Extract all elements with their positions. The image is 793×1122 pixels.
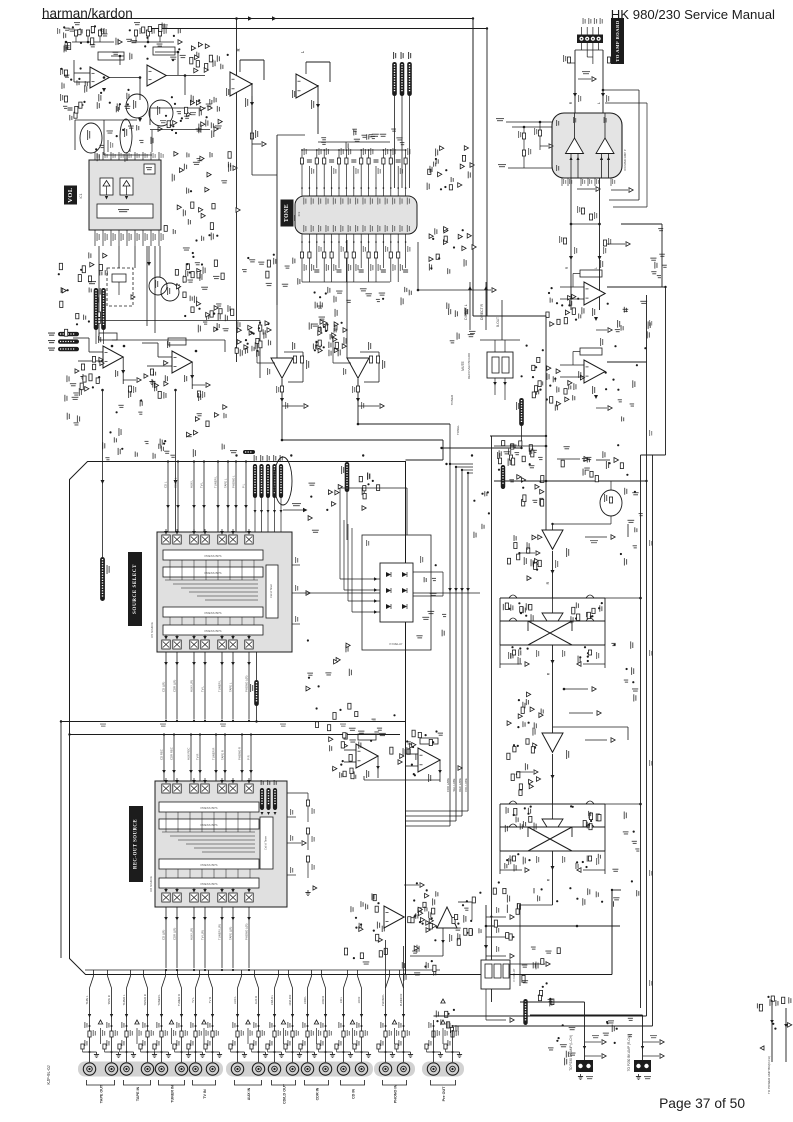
svg-text:PHONO L: PHONO L <box>232 475 236 488</box>
svg-text:TV R: TV R <box>196 754 200 760</box>
svg-text:MUTE: MUTE <box>461 360 465 370</box>
svg-text:PHONO L(R): PHONO L(R) <box>245 675 249 692</box>
svg-text:Cal Id Timer: Cal Id Timer <box>264 836 268 850</box>
svg-text:CD REC: CD REC <box>160 749 164 760</box>
svg-text:REC LABE: REC LABE <box>458 778 462 792</box>
svg-text:CD(R) L: CD(R) L <box>174 477 178 488</box>
svg-text:TV IN: TV IN <box>203 1089 207 1099</box>
svg-text:TAPE L: TAPE L <box>224 478 228 488</box>
svg-text:L: L <box>594 267 598 269</box>
svg-text:CDR R: CDR R <box>321 996 325 1005</box>
svg-text:TONER: TONER <box>450 394 454 405</box>
svg-text:TO POWER AMP BD(R-CH): TO POWER AMP BD(R-CH) <box>767 1056 771 1094</box>
svg-text:TUNER R: TUNER R <box>212 748 216 760</box>
svg-text:CDR IN: CDR IN <box>316 1087 320 1100</box>
svg-text:TUNER R: TUNER R <box>177 994 181 1006</box>
svg-text:TAPE L: TAPE L <box>229 682 233 692</box>
svg-text:CDR L(R): CDR L(R) <box>173 928 177 940</box>
svg-text:PHONO IN: PHONO IN <box>394 1085 398 1104</box>
svg-text:CDR L: CDR L <box>303 995 307 1004</box>
svg-text:TONEL: TONEL <box>456 425 460 435</box>
svg-text:CD L: CD L <box>164 481 168 488</box>
svg-text:Pre OUT: Pre OUT <box>442 1086 446 1102</box>
svg-text:TAPER R: TAPER R <box>143 994 147 1006</box>
svg-text:PRESS BPS: PRESS BPS <box>200 806 217 810</box>
svg-text:B-OUT: B-OUT <box>496 317 500 327</box>
svg-text:PHONO R: PHONO R <box>238 747 242 760</box>
svg-text:TAPE L: TAPE L <box>85 995 89 1005</box>
svg-text:RECOVER BOARD: RECOVER BOARD <box>467 352 471 379</box>
svg-text:KJF-9L-0J: KJF-9L-0J <box>46 1065 51 1084</box>
svg-text:AUX L(R): AUX L(R) <box>190 680 194 692</box>
svg-text:IC1: IC1 <box>79 193 83 198</box>
svg-text:CD L(R): CD L(R) <box>162 930 166 940</box>
svg-text:IC2: IC2 <box>297 211 301 216</box>
svg-text:AUX IN: AUX IN <box>247 1087 251 1100</box>
svg-text:P L: P L <box>242 483 246 488</box>
svg-text:PJ RELAY: PJ RELAY <box>512 968 516 981</box>
svg-text:TV L: TV L <box>191 997 195 1003</box>
svg-text:PHONO L: PHONO L <box>381 993 385 1006</box>
svg-text:SEL LABE: SEL LABE <box>452 778 456 791</box>
svg-text:TUNER L: TUNER L <box>218 680 222 692</box>
svg-text:IC9 MAIN AMP P: IC9 MAIN AMP P <box>623 149 627 171</box>
svg-text:R: R <box>236 48 241 51</box>
svg-text:TAPE R: TAPE R <box>221 750 225 760</box>
svg-text:TV R: TV R <box>208 997 212 1003</box>
svg-text:PHONO R: PHONO R <box>399 994 403 1007</box>
svg-text:TV L: TV L <box>201 686 205 692</box>
svg-text:CD/LD OUT: CD/LD OUT <box>283 1083 287 1104</box>
svg-text:TAPE IN: TAPE IN <box>136 1087 140 1102</box>
svg-text:AUX L(R): AUX L(R) <box>190 928 194 940</box>
svg-text:CD R: CD R <box>357 997 361 1004</box>
svg-text:PRESS BPS: PRESS BPS <box>204 571 221 575</box>
svg-text:TO P230 BK AMP (R-CH): TO P230 BK AMP (R-CH) <box>627 1035 631 1071</box>
svg-text:PRESS BPS: PRESS BPS <box>200 882 217 886</box>
svg-text:CDL LABE: CDL LABE <box>464 778 468 792</box>
svg-text:TV L: TV L <box>200 482 204 488</box>
svg-text:CDR LABE: CDR LABE <box>446 778 450 792</box>
svg-text:CD/LD L: CD/LD L <box>270 994 274 1005</box>
svg-text:AUX REC: AUX REC <box>187 748 191 760</box>
svg-text:TV L(R): TV L(R) <box>201 930 205 940</box>
svg-text:VOL: VOL <box>67 187 74 203</box>
svg-text:CDR L(R): CDR L(R) <box>173 680 177 692</box>
svg-text:Page 37 of 50: Page 37 of 50 <box>659 1096 745 1111</box>
svg-text:PRESS BPS: PRESS BPS <box>204 611 221 615</box>
svg-text:IC6 SOURCE: IC6 SOURCE <box>149 876 153 892</box>
svg-text:IC5 SOURCE: IC5 SOURCE <box>150 622 154 638</box>
svg-text:TAPE R: TAPE R <box>107 995 111 1005</box>
svg-text:AUX L: AUX L <box>233 996 237 1004</box>
svg-text:TUNER L: TUNER L <box>214 476 218 488</box>
svg-text:CD L: CD L <box>339 996 343 1003</box>
svg-text:PRESS BPS: PRESS BPS <box>204 554 221 558</box>
svg-text:TAPER L: TAPER L <box>122 994 126 1006</box>
svg-text:CDR REC: CDR REC <box>170 747 174 760</box>
svg-text:DIRECT R: DIRECT R <box>480 303 484 320</box>
svg-text:R: R <box>546 581 550 584</box>
svg-text:HK 980/230 Service Manual: HK 980/230 Service Manual <box>611 7 775 22</box>
svg-text:TONE: TONE <box>284 204 290 222</box>
svg-text:Cal Id Timer: Cal Id Timer <box>269 584 273 598</box>
svg-text:P R: P R <box>247 755 251 760</box>
svg-text:PJ RELAY: PJ RELAY <box>389 642 402 646</box>
svg-text:TUNER L(R): TUNER L(R) <box>218 924 222 940</box>
svg-text:L: L <box>597 102 601 104</box>
svg-text:PRESS BPS: PRESS BPS <box>200 823 217 827</box>
svg-text:TAPE L(R): TAPE L(R) <box>229 927 233 940</box>
svg-text:SOURCE SELECT: SOURCE SELECT <box>132 564 138 614</box>
svg-text:TO AMP BOARD: TO AMP BOARD <box>615 20 620 62</box>
svg-text:TUNER L: TUNER L <box>157 994 161 1006</box>
svg-text:CD/LD R: CD/LD R <box>288 995 292 1006</box>
svg-text:REC-OUT SOURCE: REC-OUT SOURCE <box>134 819 139 869</box>
svg-text:PHONO L(R): PHONO L(R) <box>245 923 249 940</box>
svg-text:AUX L: AUX L <box>190 479 194 488</box>
svg-text:CD L(R): CD L(R) <box>162 682 166 692</box>
svg-text:CD IN: CD IN <box>352 1089 356 1099</box>
svg-text:PRESS BPS: PRESS BPS <box>200 863 217 867</box>
svg-text:AUX R: AUX R <box>254 996 258 1004</box>
svg-text:TUNER IN: TUNER IN <box>171 1085 175 1103</box>
svg-text:PRESS BPS: PRESS BPS <box>204 629 221 633</box>
svg-text:TAPE OUT: TAPE OUT <box>100 1084 104 1103</box>
